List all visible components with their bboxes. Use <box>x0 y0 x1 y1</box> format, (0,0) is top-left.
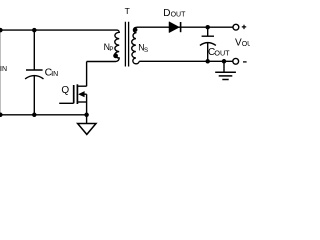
wire primary bottom <box>87 61 116 63</box>
wire lower output rail <box>139 60 233 62</box>
svg-text:T: T <box>125 6 130 16</box>
node input- cut at edge <box>0 113 3 118</box>
terminal Vout- <box>233 58 239 64</box>
node COUT top junction <box>205 25 210 30</box>
svg-text:D: D <box>163 8 170 19</box>
node COUT bottom junction <box>205 59 210 64</box>
svg-text:Q: Q <box>61 85 69 96</box>
svg-text:P: P <box>109 46 113 53</box>
ground (earth, output) <box>215 61 236 79</box>
transistor Q1 mosfet <box>59 84 86 104</box>
node NS phase dot <box>134 28 138 32</box>
node ground junction <box>222 59 227 64</box>
transformer core <box>125 22 128 67</box>
svg-text:S: S <box>144 47 148 54</box>
inductor secondary NS <box>132 27 140 64</box>
svg-text:OUT: OUT <box>171 12 187 19</box>
node CIN top junction <box>32 28 37 32</box>
wire left rail cut at edge <box>0 30 1 115</box>
wire drain to primary <box>86 62 88 115</box>
svg-text:IN: IN <box>51 71 58 78</box>
svg-text:OUT: OUT <box>214 49 230 58</box>
inductor primary NP <box>115 30 119 61</box>
svg-text:IN: IN <box>0 66 7 73</box>
label minus <box>243 61 247 63</box>
node CIN bottom junction <box>32 113 37 118</box>
capacitor CIN <box>25 30 43 115</box>
wire secondary top to +terminal <box>137 26 233 28</box>
node NP phase dot <box>113 53 118 58</box>
diode DOUT <box>169 22 180 32</box>
label plus <box>242 25 246 29</box>
svg-text:OUT: OUT <box>242 41 250 48</box>
wire bottom rail <box>0 114 87 116</box>
terminal Vout+ <box>233 24 239 30</box>
wire top rail primary <box>0 29 117 31</box>
ground (signal, below Q source) <box>78 115 96 135</box>
node input+ cut at edge <box>0 28 3 32</box>
capacitor COUT <box>200 27 216 61</box>
wire gate lead <box>59 102 73 104</box>
node source junction <box>84 113 89 118</box>
